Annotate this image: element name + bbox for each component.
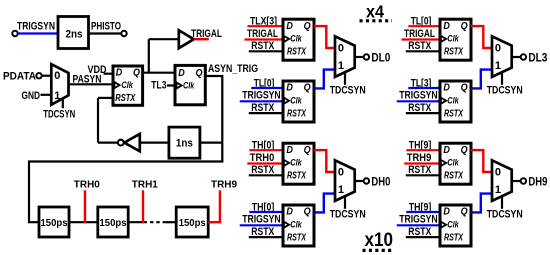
svg-text:TDCSYN: TDCSYN: [487, 209, 523, 221]
svg-text:D: D: [178, 67, 185, 79]
svg-text:1: 1: [54, 90, 60, 102]
svg-text:PDATA: PDATA: [3, 70, 36, 82]
mux M3: [335, 160, 355, 201]
wire tap TRH1 (red): [142, 190, 144, 223]
svg-text:DL0: DL0: [371, 52, 390, 64]
wire feedback vertical: [97, 98, 99, 143]
svg-text:TRIGSYN: TRIGSYN: [242, 90, 281, 102]
wire TRIGAL (G2 top): [402, 38, 441, 40]
dff U4B clk triangle: [441, 222, 446, 228]
buffer B1 (TRIGAL driver): [179, 30, 194, 48]
dff U3A clk triangle: [284, 160, 289, 166]
dff U2B clk triangle: [441, 98, 446, 104]
wire M2 select: [501, 72, 503, 85]
mux M4: [492, 160, 512, 201]
dff U3B body: [283, 205, 314, 246]
svg-text:TRIGSYN: TRIGSYN: [242, 214, 281, 226]
wire RSTX (G1 bottom): [249, 112, 283, 114]
wire TRIGAL (G1 top): [245, 38, 284, 40]
delay element D2 150ps: [98, 207, 128, 237]
dff U2A body: [440, 19, 471, 60]
svg-text:TRIGSYN: TRIGSYN: [399, 214, 438, 226]
svg-text:Q: Q: [461, 20, 468, 32]
wire RSTX (G3 bottom): [249, 236, 283, 238]
wire M3 select: [344, 196, 346, 209]
delay element D3 150ps: [176, 207, 208, 237]
wire M3 out: [355, 180, 364, 182]
dff U2 clk triangle: [177, 83, 182, 89]
svg-text:PHISTO: PHISTO: [91, 21, 121, 33]
svg-text:2ns: 2ns: [66, 28, 83, 40]
svg-text:TRIGSYN: TRIGSYN: [17, 21, 55, 33]
wire U1.Q to U2.D: [143, 72, 175, 74]
svg-text:x10: x10: [365, 229, 394, 251]
svg-text:Q: Q: [133, 67, 140, 79]
wire U4B.Q to mux (blue): [471, 194, 492, 213]
svg-text:1: 1: [338, 60, 344, 72]
wire PDATA to mux: [42, 75, 52, 77]
svg-text:D: D: [443, 82, 450, 94]
svg-text:D: D: [443, 206, 450, 218]
dff U3B clk triangle: [284, 222, 289, 228]
wire M4 out: [512, 180, 521, 182]
dff U4A clk triangle: [441, 160, 446, 166]
svg-text:0: 0: [338, 166, 344, 178]
svg-text:Clk: Clk: [290, 34, 302, 45]
delay element 2ns box: [58, 17, 89, 49]
svg-text:D: D: [443, 20, 450, 32]
svg-text:TL3: TL3: [151, 79, 167, 91]
wire TRIGSYN (G3 bottom): [240, 224, 283, 226]
ellipsis dots under x4: [360, 19, 393, 22]
svg-text:TRH9: TRH9: [211, 179, 237, 191]
svg-text:D: D: [116, 67, 123, 79]
wire U1B.Q to mux (blue): [314, 70, 335, 89]
wire U1A.Q to mux (red): [314, 26, 335, 48]
delay element 1ns box: [169, 127, 200, 158]
wire TL[0] (G2 top): [408, 25, 440, 27]
wire PHISTO: [89, 32, 122, 34]
svg-text:Clk: Clk: [447, 95, 459, 106]
svg-text:D: D: [286, 144, 293, 156]
svg-text:Clk: Clk: [447, 158, 459, 169]
wire into 1ns delay: [200, 142, 222, 144]
svg-text:TDCSYN: TDCSYN: [43, 108, 75, 120]
svg-text:Q: Q: [304, 20, 311, 32]
wire D3 out (red): [208, 221, 221, 223]
wire branch to buffer (vertical): [148, 39, 150, 72]
svg-text:DL3: DL3: [528, 52, 547, 64]
dff U1B body: [283, 81, 314, 122]
delay element D1 150ps: [39, 207, 69, 237]
svg-text:TRH1: TRH1: [132, 179, 158, 191]
wire RSTX (G2 bottom): [406, 112, 440, 114]
inverter I1 bubble: [118, 140, 124, 146]
wire TRH0 (G3 top): [247, 162, 283, 164]
wire U3A.Q to mux (red): [314, 150, 335, 172]
terminal PHISTO: [121, 31, 126, 36]
svg-text:Q: Q: [461, 206, 468, 218]
wire TH[9] (G4 top): [406, 149, 440, 151]
svg-text:TDCSYN: TDCSYN: [330, 85, 366, 97]
svg-text:D: D: [286, 20, 293, 32]
wire RSTX (G3 top): [249, 174, 283, 176]
svg-text:GND: GND: [22, 90, 41, 102]
wire TRIGAL out (red): [194, 38, 209, 40]
dff U3A body: [283, 143, 314, 184]
wire TL[0] (G1 bottom): [251, 87, 283, 89]
wire TLX[3] (G1 top): [248, 25, 284, 27]
svg-text:RSTX: RSTX: [444, 170, 464, 182]
wire TL[3] (G2 bottom): [408, 87, 440, 89]
terminal PDATA: [36, 73, 41, 78]
svg-text:150ps: 150ps: [179, 217, 206, 229]
svg-text:1: 1: [338, 184, 344, 196]
wire TH[0] (G3 bottom): [249, 211, 283, 213]
wire ASYN_TRIG feedback loop: [29, 76, 222, 222]
inverter I1 triangle: [124, 134, 140, 151]
mux M1: [51, 64, 68, 105]
svg-text:RSTX: RSTX: [287, 231, 307, 243]
dff U2B body: [440, 81, 471, 122]
svg-text:Clk: Clk: [121, 80, 133, 91]
dff U2 body: [175, 65, 205, 104]
wire RSTX (G2 top): [406, 50, 440, 52]
svg-text:Q: Q: [196, 67, 203, 79]
svg-text:RSTX: RSTX: [444, 107, 464, 119]
svg-text:Q: Q: [304, 82, 311, 94]
wire VDD to U1 D: [104, 73, 114, 75]
wire to U1 RSTX: [98, 97, 113, 99]
wire ellipsis dashes: [150, 221, 166, 223]
svg-text:Q: Q: [461, 82, 468, 94]
terminal TRIGSYN: [12, 31, 17, 36]
wire TH[9] (G4 bottom): [406, 211, 440, 213]
wire U3B.Q to mux (blue): [314, 194, 335, 213]
svg-text:Clk: Clk: [447, 34, 459, 45]
svg-text:ASYN_TRIG: ASYN_TRIG: [208, 63, 258, 75]
wire branch to buffer (horizontal): [149, 38, 179, 40]
svg-text:1ns: 1ns: [176, 138, 193, 150]
terminal DL0: [364, 54, 369, 59]
wire PASYN (M1 out to U1 clk): [69, 83, 114, 85]
svg-text:RSTX: RSTX: [287, 170, 307, 182]
svg-text:TRIGSYN: TRIGSYN: [399, 90, 438, 102]
dff U1A clk triangle: [284, 36, 289, 42]
dff U1 body: [113, 66, 143, 105]
wire inverter out: [98, 142, 118, 144]
dff U4A body: [440, 143, 471, 184]
svg-text:TRIGAL: TRIGAL: [191, 28, 222, 40]
svg-text:0: 0: [54, 70, 60, 82]
wire 1ns to inverter: [140, 142, 169, 144]
wire U2B.Q to mux (blue): [471, 70, 492, 89]
terminal DH0: [364, 178, 369, 183]
terminal DL3: [521, 54, 526, 59]
wire D2 out: [128, 221, 147, 223]
svg-text:DH9: DH9: [528, 176, 547, 188]
dff U2A clk triangle: [441, 36, 446, 42]
svg-text:x4: x4: [366, 2, 384, 22]
wire TH[0] (G3 top): [249, 149, 283, 151]
svg-text:1: 1: [495, 60, 501, 72]
svg-text:Clk: Clk: [290, 158, 302, 169]
svg-text:TDCSYN: TDCSYN: [330, 209, 366, 221]
svg-text:0: 0: [495, 166, 501, 178]
wire U2A.Q to mux (red): [471, 26, 492, 48]
svg-text:150ps: 150ps: [100, 217, 127, 229]
svg-text:Clk: Clk: [290, 219, 302, 230]
svg-text:D: D: [286, 206, 293, 218]
svg-text:DH0: DH0: [371, 176, 390, 188]
svg-text:TRH0: TRH0: [74, 179, 100, 191]
svg-text:TRIGAL: TRIGAL: [404, 28, 435, 40]
dff U1 clk triangle: [115, 82, 120, 88]
svg-text:RSTX: RSTX: [287, 46, 307, 58]
wire tap TRH0 (red): [84, 190, 86, 223]
wire U4A.Q to mux (red): [471, 150, 492, 172]
wire RSTX (G4 bottom): [406, 236, 440, 238]
ellipsis dots under x10: [363, 249, 393, 252]
svg-text:150ps: 150ps: [41, 217, 68, 229]
wire TRIGSYN (G2 bottom): [397, 100, 440, 102]
wire M4 select: [501, 196, 503, 209]
dff U1B clk triangle: [284, 98, 289, 104]
svg-text:TDCSYN: TDCSYN: [487, 85, 523, 97]
wire M2 out: [512, 56, 521, 58]
svg-text:0: 0: [338, 42, 344, 54]
svg-text:Clk: Clk: [183, 81, 195, 92]
svg-text:Q: Q: [461, 144, 468, 156]
dff U1A body: [283, 19, 314, 60]
wire TL3 to U2 clk: [167, 84, 175, 86]
svg-text:RSTX: RSTX: [444, 231, 464, 243]
svg-text:Clk: Clk: [290, 95, 302, 106]
svg-text:1: 1: [495, 184, 501, 196]
wire TRH9 (G4 top): [404, 162, 440, 164]
wire TRIGSYN (G4 bottom): [397, 224, 440, 226]
wire D1 to D2: [69, 221, 98, 223]
mux M1: [335, 36, 355, 77]
wire TRIGSYN (blue): [18, 32, 58, 34]
svg-text:RSTX: RSTX: [444, 46, 464, 58]
wire GND to mux: [41, 94, 52, 96]
svg-text:0: 0: [495, 42, 501, 54]
wire RSTX (G4 top): [406, 174, 440, 176]
svg-text:D: D: [286, 82, 293, 94]
svg-text:TRH9: TRH9: [407, 152, 432, 164]
wire D3 in: [166, 221, 176, 223]
wire RSTX (G1 top): [249, 50, 283, 52]
svg-text:RSTX: RSTX: [115, 92, 136, 104]
svg-text:Clk: Clk: [447, 219, 459, 230]
svg-text:Q: Q: [304, 206, 311, 218]
dff U4B body: [440, 205, 471, 246]
wire M1 select: [344, 72, 346, 85]
terminal DH9: [521, 178, 526, 183]
mux M2: [492, 36, 512, 77]
wire M1 out: [355, 56, 364, 58]
wire TRIGSYN (G1 bottom): [240, 100, 283, 102]
svg-text:Q: Q: [304, 144, 311, 156]
svg-text:D: D: [443, 144, 450, 156]
svg-text:RSTX: RSTX: [287, 107, 307, 119]
svg-text:TRIGAL: TRIGAL: [247, 28, 278, 40]
svg-text:TRH0: TRH0: [250, 152, 275, 164]
wire M1 select: [62, 100, 64, 109]
wire tap TRH9 (red): [219, 190, 221, 223]
